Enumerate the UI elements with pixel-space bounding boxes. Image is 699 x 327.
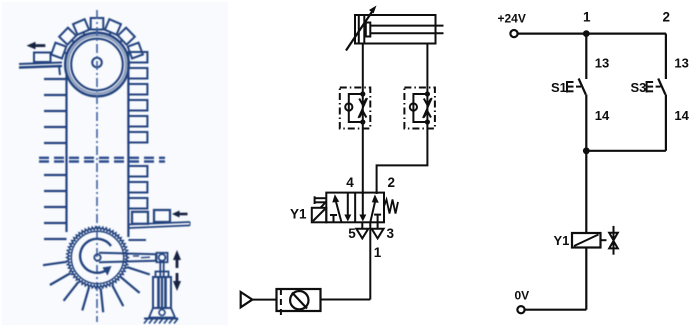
- node top-wheel: [65, 33, 129, 97]
- node left-rungs: [44, 79, 67, 239]
- node infeed-arrow: [27, 42, 46, 50]
- svg-text:1: 1: [583, 10, 591, 25]
- node junction-2: [583, 147, 590, 154]
- node port3-exhaust: [377, 222, 379, 228]
- node valve-right-square: [363, 193, 381, 223]
- svg-text:S3: S3: [631, 80, 647, 95]
- svg-text:13: 13: [595, 56, 609, 71]
- svg-text:S1: S1: [551, 80, 567, 95]
- wire: [252, 299, 276, 301]
- node valve-left-square: [330, 193, 348, 223]
- node return-spring: [384, 200, 398, 214]
- wire: [518, 32, 666, 34]
- node break-line: [39, 158, 165, 162]
- node coil-valve-symbol: [601, 226, 618, 255]
- conveyor drawing background: [2, 2, 228, 325]
- node gear-spokes: [43, 262, 150, 312]
- svg-text:13: 13: [674, 56, 688, 71]
- wire: [426, 44, 428, 95]
- wire: [369, 222, 371, 299]
- node lift-cylinder: [153, 261, 171, 308]
- ground: [144, 319, 178, 324]
- svg-text:0V: 0V: [515, 289, 530, 303]
- node gear-wheel: [67, 227, 129, 288]
- node service-unit: [277, 289, 321, 318]
- wire: [585, 151, 587, 233]
- svg-text:+24V: +24V: [498, 12, 526, 26]
- wire: [525, 309, 587, 311]
- node stroke-arrow: [173, 250, 181, 291]
- node right-buckets: [128, 52, 147, 240]
- svg-text:3: 3: [387, 226, 395, 241]
- cylinder 1A1: [355, 15, 444, 44]
- node infeed-platform: [19, 63, 62, 76]
- node crank-lever: [99, 253, 156, 263]
- node chute-boxes: [132, 210, 170, 224]
- node cylinder-foot: [149, 308, 175, 318]
- svg-text:14: 14: [595, 108, 610, 123]
- node port-labels: [290, 175, 395, 260]
- node crank-pin: [157, 253, 168, 262]
- svg-text:Y1: Y1: [554, 233, 570, 248]
- node junction-1: [583, 30, 590, 37]
- svg-text:4: 4: [346, 175, 354, 190]
- relay coil Y1: [572, 233, 601, 248]
- wire: [586, 150, 666, 152]
- node 0V-terminal: [517, 306, 524, 313]
- node gear-rotation-arrow: [80, 239, 111, 273]
- node chute: [129, 222, 190, 228]
- svg-text:14: 14: [674, 108, 689, 123]
- node +24V-terminal: [510, 30, 517, 37]
- wire: [377, 122, 428, 194]
- svg-text:Y1: Y1: [290, 207, 307, 222]
- valve 1V1 5/2-way: [326, 193, 384, 223]
- node infeed-workpiece: [34, 53, 51, 63]
- solenoid Y1: [312, 196, 327, 222]
- node top-buckets: [51, 18, 143, 60]
- svg-text:1: 1: [374, 245, 382, 260]
- svg-text:2: 2: [663, 10, 671, 25]
- svg-text:2: 2: [388, 175, 396, 190]
- svg-text:5: 5: [348, 226, 356, 241]
- node cylinder-adjust-arrow: [346, 11, 373, 51]
- node center-axis: [96, 10, 98, 322]
- wire: [585, 248, 587, 310]
- node belt-lines: [67, 62, 129, 237]
- valve 1V3 flow-control: [404, 88, 435, 129]
- wire: [321, 299, 371, 301]
- valve 1V2 flow-control: [340, 88, 371, 129]
- switch S3: [665, 34, 667, 79]
- node port5-exhaust: [361, 222, 363, 228]
- switch S1: [585, 34, 587, 79]
- wire: [362, 122, 364, 194]
- node air-source: [241, 292, 253, 307]
- node outfeed-arrow: [172, 211, 188, 218]
- wire: [362, 44, 364, 95]
